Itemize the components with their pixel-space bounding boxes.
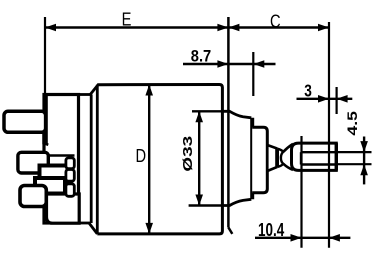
cap bottom edge extension xyxy=(79,222,91,225)
svg-text:10.4: 10.4 xyxy=(258,220,284,240)
arrow 4.5 top (outside, pointing down) xyxy=(360,141,368,152)
dimension D line with arrows xyxy=(148,85,150,234)
svg-text:C: C xyxy=(270,11,281,31)
arrow 3 right (outside, pointing left) xyxy=(337,95,348,103)
svg-text:3: 3 xyxy=(304,81,312,101)
arrow E right xyxy=(217,24,228,32)
cap face step xyxy=(44,133,49,145)
fork slot bottom line xyxy=(301,163,338,165)
dimension Ø33 line with arrows xyxy=(198,111,200,205)
arrow 4.5 bottom (outside, pointing up) xyxy=(360,164,368,175)
dimension 10.4 line xyxy=(255,237,350,239)
arrow 8.7 right (outside, pointing left) xyxy=(253,60,264,68)
arrow 3 left (outside, pointing right) xyxy=(318,95,329,103)
bell cone top contour xyxy=(222,111,251,118)
top chamfer to cylinder xyxy=(90,85,98,95)
arrow E left xyxy=(45,24,56,32)
arrow 8.7 left (outside, pointing right) xyxy=(217,60,228,68)
Ø33 ring front line xyxy=(227,17,230,228)
arrow 10.4 right (outside, pointing left) xyxy=(329,234,340,242)
cone to fork bottom xyxy=(283,164,293,170)
Ø33 top tick xyxy=(192,110,230,112)
dimension E line xyxy=(45,26,329,28)
plunger boss xyxy=(267,145,276,171)
Ø33 ring bottom chamfer xyxy=(228,228,232,234)
bottom block xyxy=(47,194,80,223)
dimension E left extension line xyxy=(44,17,46,95)
Ø33 bottom tick xyxy=(189,204,223,206)
main cylinder left edge xyxy=(96,85,99,234)
dimension 8.7 line xyxy=(183,63,276,66)
dimension C arrows xyxy=(228,24,239,32)
svg-text:D: D xyxy=(136,146,147,166)
extension line C right / 10.4 right (over fork) xyxy=(328,22,330,248)
dimension 3 line xyxy=(297,98,353,100)
arrow 10.4 left (outside, pointing right) xyxy=(291,234,302,242)
middle terminal stud xyxy=(18,152,48,173)
terminal plate top line xyxy=(48,154,75,156)
svg-text:4.5: 4.5 xyxy=(344,111,360,136)
bottom chamfer to cylinder xyxy=(89,223,97,234)
extension line 3 right xyxy=(336,87,338,114)
nut facet column xyxy=(66,158,74,196)
middle nut front xyxy=(40,166,68,183)
svg-text:8.7: 8.7 xyxy=(191,46,211,65)
fork (clevis) outline xyxy=(292,143,337,170)
flange front ring line xyxy=(90,95,93,224)
boss front line xyxy=(277,148,279,167)
rear cap face (thick upper left edge) xyxy=(43,95,47,145)
fork slot top line xyxy=(301,151,338,153)
dimension 8.7 right extension line xyxy=(252,52,254,96)
cone to fork top xyxy=(283,144,293,152)
bell cone bottom contour xyxy=(222,199,251,205)
lower nut front xyxy=(35,178,65,194)
svg-text:E: E xyxy=(122,10,132,30)
bottom terminal stud xyxy=(20,186,46,207)
front collar xyxy=(252,127,267,192)
cap top edge extension xyxy=(79,93,91,96)
extension lines 4.5 xyxy=(338,151,372,153)
fork right face xyxy=(335,143,338,170)
rear cap outline xyxy=(44,95,79,224)
fork slot left end xyxy=(300,152,302,164)
top terminal stud xyxy=(4,111,46,132)
main cylinder xyxy=(97,85,222,234)
dimension 4.5 line xyxy=(363,137,365,185)
bell front face xyxy=(250,118,254,200)
extension line 10.4 left (over fork) xyxy=(300,136,302,248)
svg-text:Ø33: Ø33 xyxy=(181,136,195,172)
neck waist xyxy=(278,149,284,167)
